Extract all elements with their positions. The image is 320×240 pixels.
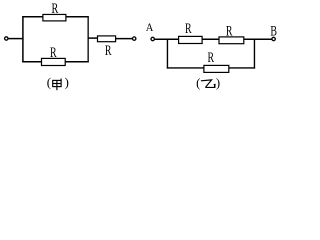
wire from parallel block to series resistor xyxy=(88,37,99,39)
svg-text:R: R xyxy=(50,45,57,61)
wire bottom branch xyxy=(167,67,255,69)
wire left T-junction vertical xyxy=(166,39,168,68)
resistor R (parallel bottom branch) xyxy=(204,65,229,72)
wire right T-junction vertical xyxy=(253,39,255,68)
svg-text:R: R xyxy=(226,23,233,39)
resistor R (first series, top branch) xyxy=(179,36,203,43)
terminal left (甲) xyxy=(5,37,8,40)
svg-text:): ) xyxy=(65,76,69,90)
terminal A xyxy=(151,37,154,40)
wire top branch xyxy=(22,16,88,18)
wire right vertical bus xyxy=(87,16,89,62)
terminal right (甲) xyxy=(133,37,136,40)
resistor R (second series, top branch) xyxy=(219,37,244,44)
wire main horizontal (A to B) xyxy=(155,38,272,40)
terminal B xyxy=(272,37,275,40)
svg-text:R: R xyxy=(185,21,192,37)
wire from series resistor to right terminal xyxy=(116,38,133,40)
svg-text:(: ( xyxy=(47,76,51,90)
wire bottom branch xyxy=(22,61,88,63)
svg-text:R: R xyxy=(208,50,215,66)
wire left vertical bus xyxy=(22,16,24,62)
resistor R (bottom parallel branch) xyxy=(42,58,66,65)
svg-text:): ) xyxy=(216,76,220,90)
resistor R (top parallel branch) xyxy=(43,14,66,20)
svg-text:(: ( xyxy=(196,76,200,90)
wire from left terminal to parallel block xyxy=(8,38,23,40)
svg-text:B: B xyxy=(270,23,277,39)
svg-text:R: R xyxy=(52,1,59,17)
resistor R (series) xyxy=(98,36,116,42)
svg-text:A: A xyxy=(146,20,154,34)
svg-text:R: R xyxy=(105,43,112,59)
